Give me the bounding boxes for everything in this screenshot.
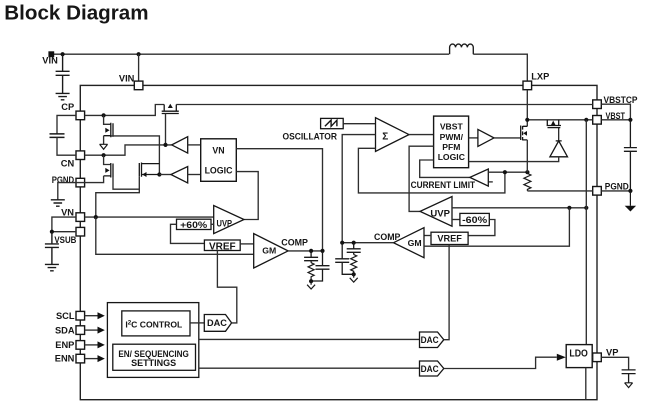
transistor Q2	[104, 123, 113, 137]
svg-text:VREF: VREF	[437, 233, 462, 243]
op-amp UVP (left)	[214, 206, 244, 234]
outer IC boundary box	[80, 85, 597, 399]
block control outer box	[107, 303, 198, 378]
op-amp GM (right)	[394, 228, 425, 258]
capacitor C_VSUB	[45, 232, 59, 265]
junction CN row	[102, 153, 106, 157]
wire+arrow: DAC3 to LDO	[444, 357, 557, 368]
wire: VP pin to external cap	[601, 357, 628, 370]
wire: Q2 source to ground arrow	[103, 136, 105, 145]
pin VIN	[134, 81, 143, 90]
transistor Q6 (isolation PFET)	[547, 120, 561, 128]
transistor Q5 (boost NFET)	[521, 126, 528, 141]
transistor Q4	[139, 163, 159, 177]
junction VBST sense b	[584, 206, 588, 210]
wire: VBST rail	[527, 119, 592, 121]
block -60%	[460, 213, 489, 225]
pin PGND (left)	[76, 178, 85, 187]
wire: VREF(right) to -60%	[468, 220, 495, 236]
block VBST PWM/PFM LOGIC U3	[434, 116, 469, 168]
junction inverter-2 node	[157, 172, 161, 176]
DAC U5 (pentagon)	[420, 332, 444, 348]
pin SCL	[76, 311, 85, 320]
wire+arrow: ENN input	[85, 358, 98, 360]
wire: control box to DAC2	[199, 338, 420, 340]
svg-text:ENN: ENN	[55, 354, 75, 364]
svg-text:PFM: PFM	[442, 142, 460, 152]
resistor R_SENSE	[524, 172, 531, 191]
wire: +60% to UVP(left)	[211, 223, 214, 225]
svg-text:UVP: UVP	[430, 209, 450, 220]
pin CP	[76, 111, 85, 120]
wire+arrow: ENP input	[85, 344, 98, 346]
wire: VBST rail down to LDO	[585, 120, 587, 345]
wire: node to inverter-2 tip	[159, 174, 171, 176]
inverter A1 (upper)	[172, 137, 188, 153]
svg-text:PWM/: PWM/	[440, 132, 464, 142]
wire: VN pin to VSUB tie	[52, 217, 76, 232]
svg-text:CP: CP	[61, 102, 74, 112]
wire: charge-pump top plate to VBSTCP pin	[176, 104, 592, 106]
junction COMP left a	[309, 249, 313, 253]
wire: I2C to DAC1	[190, 322, 204, 324]
svg-text:VREF: VREF	[209, 241, 236, 252]
junction VBST ext	[628, 118, 632, 122]
wire: VN LOGIC output to left COMP node	[236, 149, 322, 251]
junction COMP right b	[352, 241, 356, 245]
junction VN row	[94, 215, 98, 219]
wire: VSUB pin to cap	[52, 231, 76, 233]
junction VIN cap	[61, 52, 65, 56]
buffer B1 (gate driver)	[469, 137, 478, 139]
wire: sigma output to PWM logic	[409, 134, 434, 136]
wire: Q2 node to inverter-2 column	[111, 136, 160, 175]
capacitor C_VP	[622, 370, 636, 383]
capacitor C4 + resistor R2 (right COMP)	[347, 243, 361, 255]
wire: Q3 source to PGND row	[76, 176, 104, 183]
capacitor C1 (left COMP)	[304, 251, 318, 263]
wire: VREF(left) to GM(left)	[240, 243, 254, 245]
transistor Q1 (top PMOS)	[162, 105, 179, 114]
junction COMP right a	[340, 241, 344, 245]
junction sense a	[503, 170, 507, 174]
wire: VN LOGIC to inverter A2	[188, 174, 201, 176]
wire: LDO to VP pin	[591, 356, 594, 358]
svg-text:VBST: VBST	[440, 122, 464, 132]
wire: UVP(right) top input from VBST sense	[452, 207, 586, 209]
svg-text:CURRENT LIMIT: CURRENT LIMIT	[411, 180, 476, 190]
pin PGND (right)	[593, 187, 602, 196]
wire: PGND pin to external	[601, 190, 630, 192]
svg-text:DAC: DAC	[421, 335, 439, 345]
svg-text:PGND: PGND	[52, 175, 75, 185]
comparator CURRENT LIMIT	[470, 169, 489, 186]
wire: VN pin row to UVP(left) input	[85, 216, 214, 218]
block EN/SEQUENCING SETTINGS	[113, 344, 196, 370]
svg-text:LOGIC: LOGIC	[205, 166, 234, 176]
block OSCILLATOR	[321, 118, 344, 128]
wire: DAC1 to VREF(left)	[217, 251, 236, 323]
ground (arrow) under Q2	[100, 144, 108, 149]
wire: PGND left pin to ground	[58, 183, 76, 200]
diode D1 (body)	[556, 128, 562, 141]
junction right COMP gnd	[352, 272, 356, 276]
wire: CP pin to flying cap	[57, 115, 76, 133]
wire: GM(right) output COMP	[342, 242, 393, 244]
wire: VREF(right) to GM(right)	[424, 235, 431, 237]
capacitor C3 (right COMP)	[335, 243, 354, 275]
inductor L1	[450, 44, 474, 54]
junction VIN pin drop	[137, 52, 141, 56]
wire: current-sense feedback to sigma	[358, 148, 505, 193]
wire: PWM logic to current-limit comparator	[420, 160, 470, 177]
junction sense b	[525, 170, 529, 174]
pin VN	[76, 213, 85, 222]
wire: external VIN rail to inductor	[51, 53, 449, 55]
wire: VN node to GM(left) lower input	[96, 217, 254, 254]
wire: DAC2 to VREF(right)	[444, 245, 449, 340]
svg-text:-60%: -60%	[462, 215, 488, 226]
junction VSUB cap	[50, 230, 54, 234]
capacitor C_VBST	[624, 120, 637, 191]
svg-text:COMP: COMP	[281, 238, 308, 248]
wire: right COMP node up to sigma	[342, 135, 375, 243]
wire: control box to DAC3	[199, 367, 420, 369]
svg-text:VIN: VIN	[42, 55, 58, 65]
wire: CP row	[85, 105, 165, 116]
block I2C CONTROL	[122, 311, 190, 336]
wire: VIN rail to VIN pin	[138, 54, 140, 81]
wire: buffer to Q5 gate	[494, 137, 521, 139]
wire: diode to PWM logic	[469, 157, 559, 162]
wire: sense resistor to PGND pin	[527, 190, 592, 192]
junction left COMP gnd	[309, 279, 313, 283]
wire: VBSTCP pin external to cap	[601, 104, 630, 120]
svg-text:CN: CN	[61, 159, 75, 169]
op-amp UVP (right)	[420, 197, 452, 227]
transistor Q3	[104, 163, 113, 178]
pin VP	[593, 353, 602, 362]
capacitor C2 (left COMP)	[311, 251, 329, 281]
svg-text:Block Diagram: Block Diagram	[4, 2, 148, 25]
ground (3-bar) under C_VSUB	[45, 264, 59, 270]
wire: inductor to LXP pin	[473, 54, 527, 81]
svg-text:SETTINGS: SETTINGS	[131, 358, 176, 368]
junction PGND ext	[628, 189, 632, 193]
svg-text:VIN: VIN	[119, 73, 135, 83]
pin ENP	[76, 341, 85, 350]
wire: LXP pin down to Q5	[526, 90, 528, 127]
svg-text:Σ: Σ	[382, 131, 388, 142]
svg-text:UVP: UVP	[217, 218, 233, 229]
wire+arrow: SCL input	[85, 315, 98, 317]
node VIN (external terminal)	[48, 51, 54, 57]
svg-text:COMP: COMP	[374, 232, 401, 242]
svg-text:GM: GM	[262, 246, 276, 256]
ground (arrow) under C_VP	[625, 383, 633, 388]
ground (3-bar) under C_VIN	[56, 93, 70, 99]
junction inverter-1 node	[163, 143, 167, 147]
pin VBSTCP	[593, 100, 602, 109]
pin ENN	[76, 354, 85, 363]
DAC U4 (pentagon)	[204, 315, 231, 332]
svg-text:OSCILLATOR: OSCILLATOR	[283, 131, 338, 141]
svg-text:DAC: DAC	[421, 364, 439, 374]
wire: Q4 gate down to VN node	[96, 176, 140, 217]
wire: -60% to UVP(right)	[452, 219, 460, 221]
op-amp sigma (summing)	[376, 118, 410, 152]
pin VBST	[593, 116, 602, 125]
svg-text:PGND: PGND	[605, 181, 629, 191]
wire: VBST pin to external cap	[601, 119, 630, 121]
svg-text:SDA: SDA	[55, 326, 75, 336]
svg-text:VP: VP	[606, 347, 618, 357]
junction COMP left b	[320, 249, 324, 253]
wire: VREF(left) to +60%	[171, 224, 205, 243]
wire: CN junction down to Q3	[104, 155, 111, 164]
svg-text:SCL: SCL	[56, 311, 75, 321]
pin CN	[76, 151, 85, 160]
inverter A2 (lower)	[171, 167, 188, 183]
wire: comparator input to sense node	[488, 171, 527, 173]
block LDO U7	[566, 345, 592, 368]
junction VBST rail b	[584, 118, 588, 122]
svg-text:+60%: +60%	[180, 220, 208, 231]
block VN LOGIC U2	[201, 139, 237, 182]
svg-text:GM: GM	[408, 238, 422, 248]
wire: Q5 source to sense resistor	[526, 140, 528, 172]
pin SDA	[76, 326, 85, 335]
svg-text:LXP: LXP	[531, 72, 549, 82]
resistor R1 (left COMP)	[308, 263, 314, 282]
wire: VBST feedback under VREF to GM(right)	[424, 208, 569, 246]
capacitor C_VIN	[56, 54, 70, 93]
wire: Q3 gate link	[113, 177, 139, 189]
wire: Q1 gate to inverter node	[165, 114, 167, 145]
junction VBST sense a	[567, 206, 571, 210]
wire: CN row up to inverter-1	[85, 145, 172, 155]
block +60%	[177, 219, 212, 229]
wire: VN LOGIC to inverter A1	[188, 144, 201, 146]
block VREF (left)	[204, 240, 240, 251]
ground (3-bar) at PGND left	[51, 200, 65, 206]
svg-text:I2C CONTROL: I2C CONTROL	[125, 319, 182, 329]
wire: flying cap to CN pin	[57, 137, 76, 155]
DAC U6 (pentagon)	[420, 361, 444, 376]
svg-text:VN: VN	[61, 208, 74, 218]
ground (filled arrow) PGND ext	[629, 191, 631, 206]
ground (arrow) left COMP	[307, 281, 315, 289]
junction CP row	[102, 113, 106, 117]
wire: GM(left) output COMP	[288, 250, 322, 252]
pin VSUB	[76, 227, 85, 236]
svg-text:ENP: ENP	[55, 340, 74, 350]
junction VBST rail a	[525, 118, 529, 122]
wire+arrow: SDA input	[85, 329, 98, 331]
wire: oscillator to sigma	[343, 123, 375, 125]
wire: UVP(right) output to PWM logic	[409, 146, 434, 211]
svg-text:LOGIC: LOGIC	[438, 152, 465, 162]
pin LXP	[523, 81, 532, 90]
wire: VN LOGIC to UVP(left) output	[236, 172, 258, 220]
wire: LDO bottom to box edge	[585, 368, 587, 400]
capacitor C_FLY	[50, 134, 65, 138]
svg-text:VN: VN	[212, 146, 224, 156]
wire: CP junction down to Q2	[104, 115, 111, 124]
svg-text:DAC: DAC	[207, 318, 227, 328]
ground (arrow) right COMP	[350, 274, 358, 282]
block VREF (right)	[431, 232, 468, 244]
svg-text:LDO: LDO	[569, 349, 588, 360]
op-amp GM (left)	[254, 234, 288, 268]
